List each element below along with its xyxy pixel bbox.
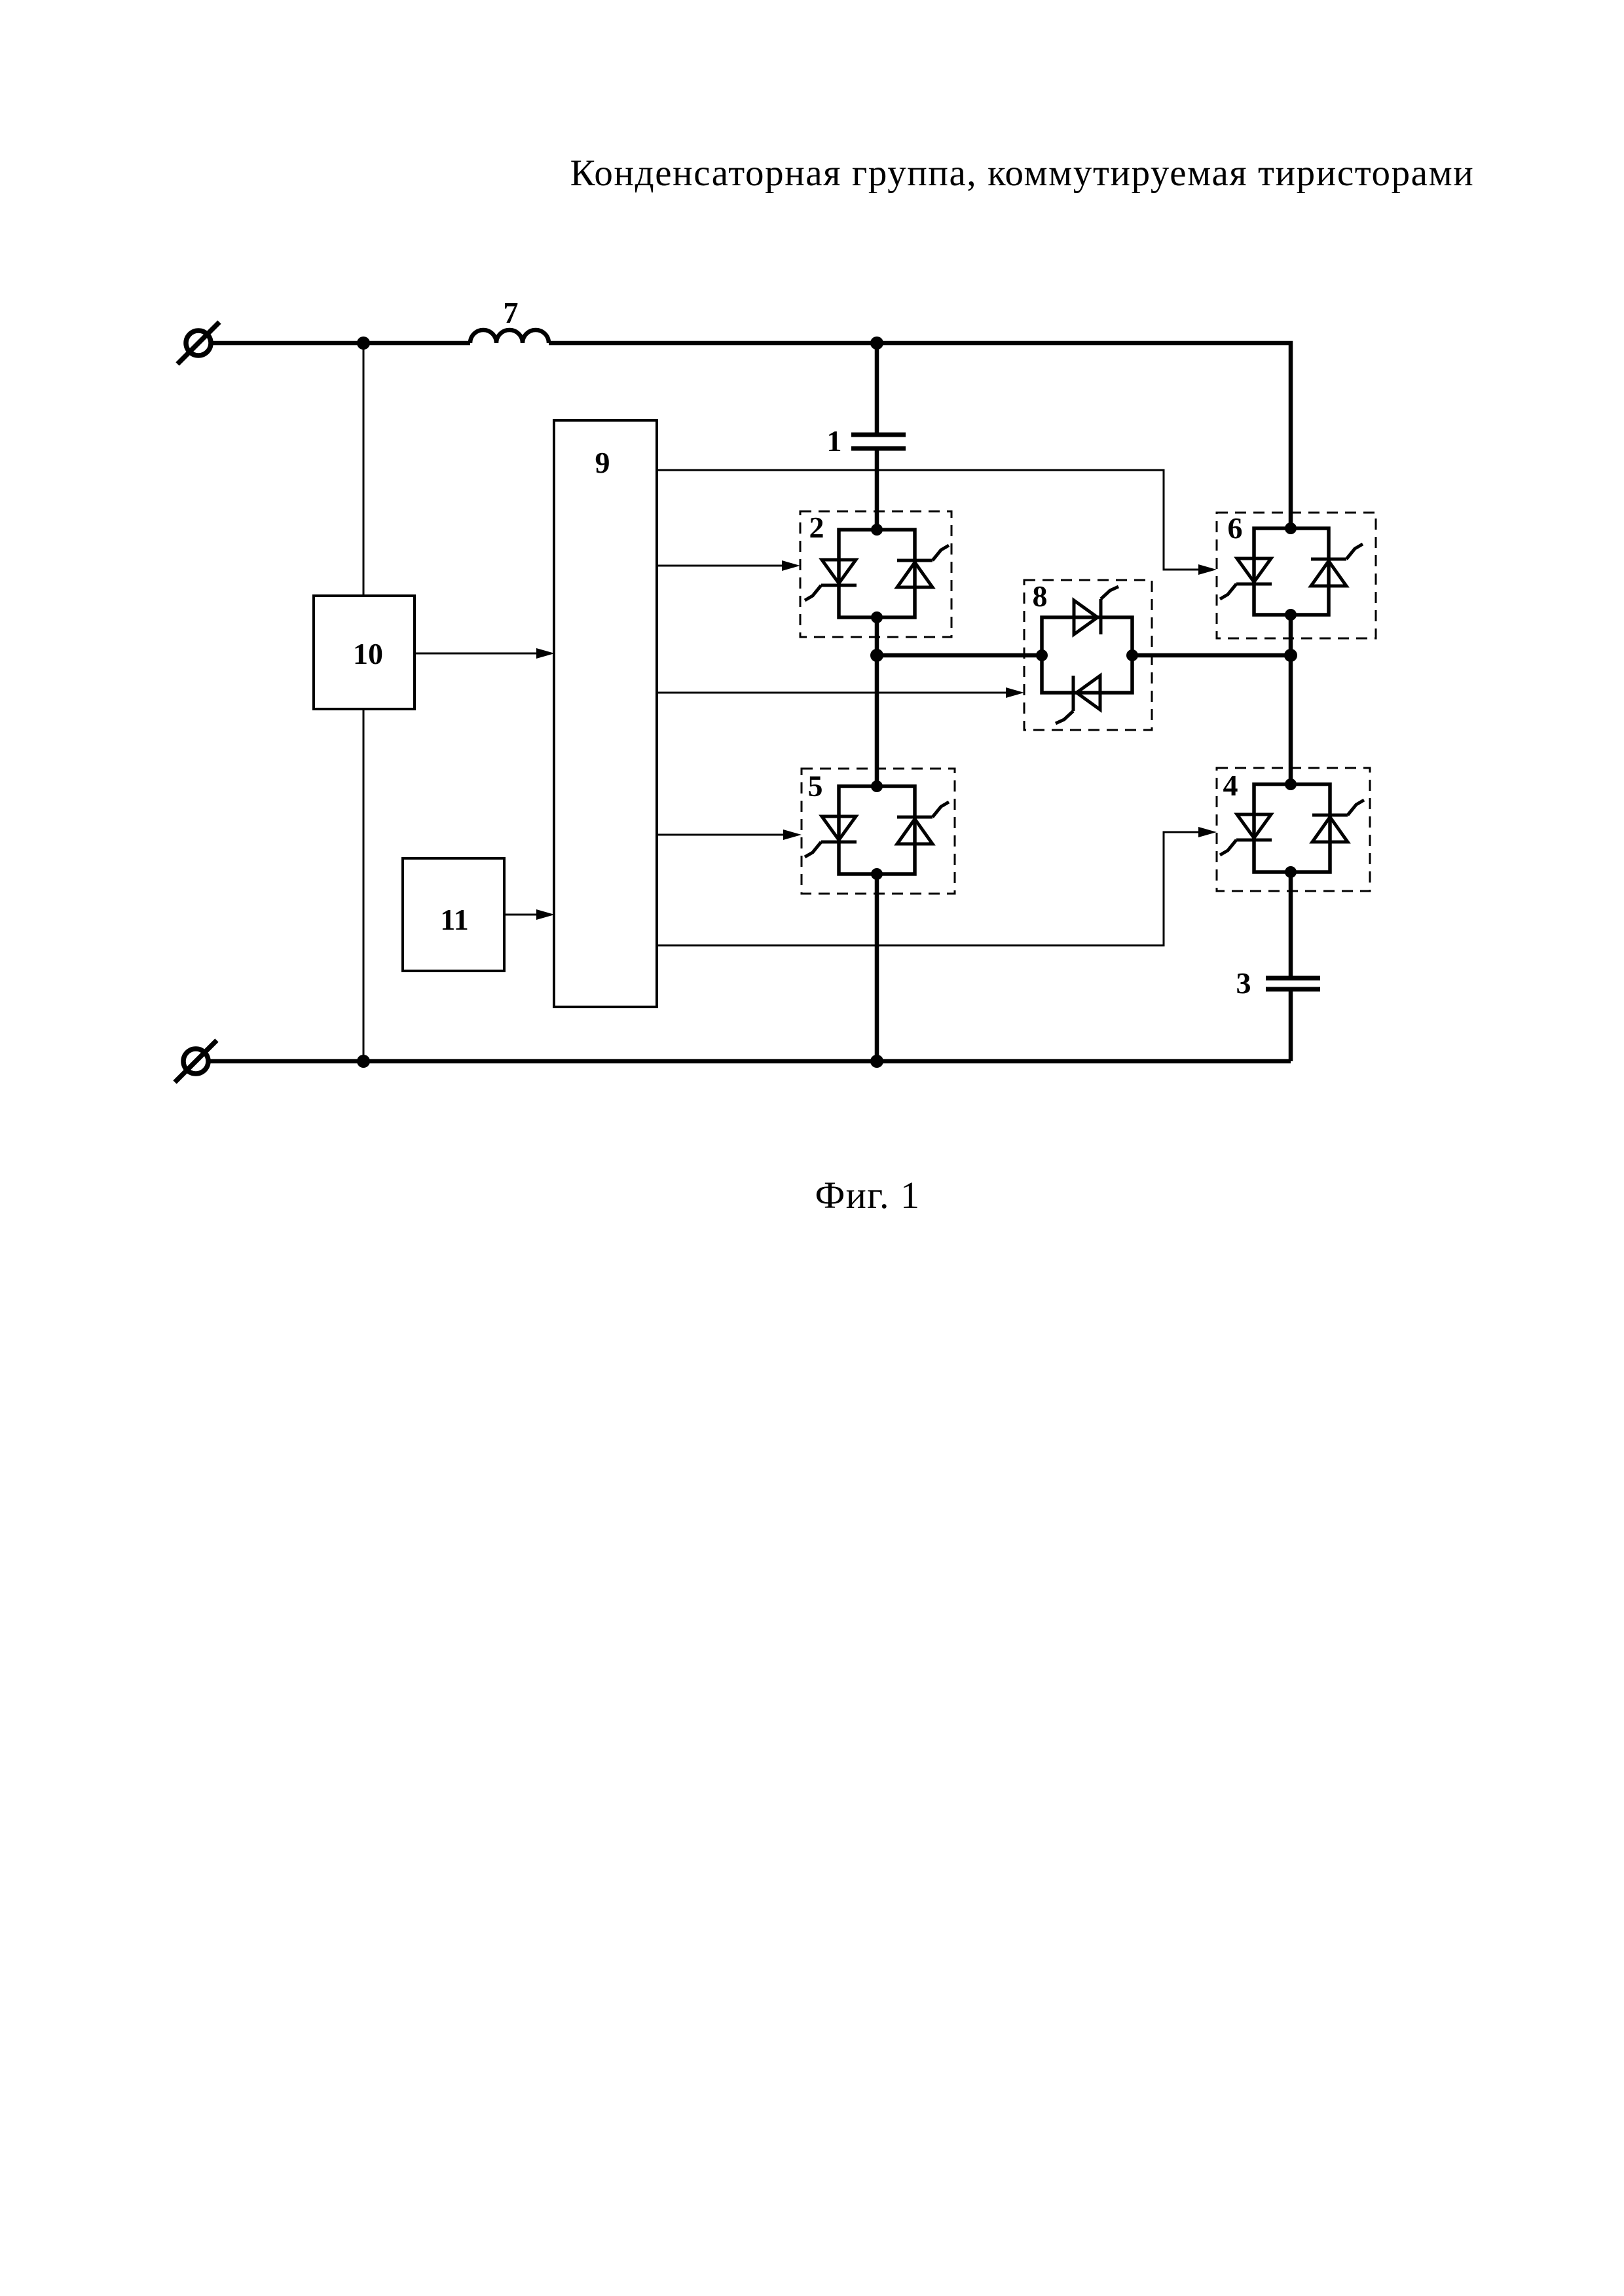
terminal: bottom-left line input (circle with slash) (175, 1040, 217, 1082)
node: module 6 bottom terminal (1285, 609, 1297, 621)
block 9 (gate pulse distributor) (554, 420, 657, 1007)
svg-text:7: 7 (504, 296, 519, 329)
thyristor module 8: top thyristor (rightward, with gate) (1074, 587, 1118, 634)
thyristor module 2: left thyristor (down, with gate) (805, 560, 857, 600)
node: module 6 top terminal (1285, 522, 1297, 534)
thyristor module 8: connecting loop (1042, 617, 1132, 693)
terminal: top-left line input (circle with slash) (177, 322, 219, 364)
control line: block 9 to module 5 gate (with arrowhead) (657, 834, 784, 836)
thyristor module 2: dashed enclosure (800, 511, 951, 637)
node C: module 2-5 branch / module 8 link junction (870, 649, 883, 662)
wire: module 5 bottom to bottom bus (875, 874, 879, 1061)
control line: block 9 to module 2 gate (with arrowhead) (657, 565, 783, 567)
thyristor module 4: dashed enclosure (1217, 768, 1370, 891)
control line: block 9 to module 8 gate (with arrowhead) (657, 692, 1007, 694)
thyristor module 6: connecting loop (1254, 528, 1329, 615)
node: module 5 bottom terminal (871, 868, 883, 880)
thyristor module 4: right thyristor (up, with gate) (1312, 800, 1364, 842)
node: module 8 left terminal (1036, 649, 1048, 661)
svg-text:1: 1 (827, 424, 842, 458)
wire: top bus, inductor to right branch corner, down to module 6 (549, 343, 1291, 528)
node: module 5 top terminal (871, 780, 883, 792)
control line: block 9 to module 4 gate (with arrowhead) (657, 832, 1200, 945)
svg-text:11: 11 (440, 903, 468, 936)
node: module 2 top terminal (871, 524, 883, 536)
svg-text:3: 3 (1236, 966, 1251, 1000)
thyristor module 5: dashed enclosure (802, 769, 955, 894)
svg-text:5: 5 (808, 769, 823, 803)
thyristor module 6: left thyristor (down, with gate) (1220, 558, 1272, 599)
thyristor module 2: connecting loop (839, 530, 915, 617)
capacitor 3 (two plates) (1266, 978, 1320, 989)
svg-text:2: 2 (809, 511, 824, 544)
wire: module 8 right terminal to node D (1132, 653, 1291, 658)
node C2: bottom bus / module 5 branch junction (870, 1055, 883, 1068)
wire: module 6 bottom to module 4 top (through node D) (1289, 615, 1293, 784)
wire: node A down to block 10 input (363, 343, 365, 596)
thyristor module 5: connecting loop (839, 786, 915, 874)
svg-text:8: 8 (1033, 579, 1048, 613)
node: module 4 top terminal (1285, 778, 1297, 790)
svg-text:4: 4 (1223, 769, 1238, 802)
thyristor module 4: connecting loop (1254, 784, 1330, 872)
thyristor module 5: left thyristor (down, with gate) (805, 816, 857, 857)
block 10 (control unit) (314, 596, 415, 709)
wire: capacitor 3 to bottom bus (1289, 989, 1293, 1061)
arrow: block 10 output to block 9 (415, 653, 538, 655)
node: module 8 right terminal (1126, 649, 1138, 661)
wire: module 2 bottom to module 5 top (through node C) (875, 617, 879, 786)
svg-text:9: 9 (595, 446, 610, 479)
svg-text:Фиг. 1: Фиг. 1 (815, 1174, 920, 1216)
wire: node B down to capacitor 1 (875, 343, 879, 435)
thyristor module 2: right thyristor (up, with gate) (897, 545, 949, 587)
wire: bottom bus (208, 1059, 1291, 1064)
thyristor module 4: left thyristor (down, with gate) (1220, 814, 1272, 855)
wire: module 4 bottom to capacitor 3 (1289, 872, 1293, 978)
node A2: bottom bus / left branch junction (357, 1055, 370, 1068)
svg-text:6: 6 (1228, 511, 1243, 545)
inductor 7 (three humps) (470, 330, 549, 343)
wire: capacitor 1 to module 2 top (875, 448, 879, 530)
wire: block 10 output down to bottom bus (363, 709, 365, 1061)
thyristor module 8: dashed enclosure (1024, 580, 1152, 730)
arrow: block 11 output to block 9 (504, 914, 538, 916)
capacitor 1 (two plates) (851, 435, 906, 448)
control line: block 9 to module 6 gate (with arrowhead) (657, 470, 1200, 570)
thyristor module 6: dashed enclosure (1217, 513, 1376, 638)
thyristor module 8: bottom thyristor (leftward, with gate) (1056, 676, 1100, 723)
node: module 4 bottom terminal (1285, 866, 1297, 878)
node: module 2 bottom terminal (871, 611, 883, 623)
thyristor module 5: right thyristor (up, with gate) (897, 802, 949, 844)
node A: top bus / left branch junction (357, 337, 370, 350)
block 11 (setting unit) (403, 858, 504, 971)
node B: top bus / capacitor 1 branch junction (870, 337, 883, 350)
node D: module 6-4 branch / module 8 link junction (1284, 649, 1297, 662)
svg-text:10: 10 (353, 637, 383, 670)
wire: node C to module 8 left terminal (877, 653, 1042, 658)
wire: top bus, terminal to inductor 7 (through node A) (211, 341, 470, 346)
thyristor module 6: right thyristor (up, with gate) (1311, 544, 1363, 586)
svg-text:Конденсаторная группа, коммути: Конденсаторная группа, коммутируемая тир… (570, 153, 1475, 194)
